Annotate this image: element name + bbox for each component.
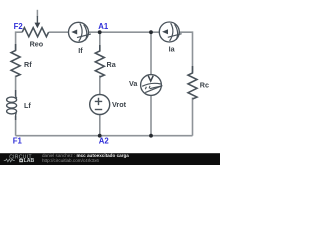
wire Rf to Lf [15,76,17,97]
svg-text:If: If [78,46,83,55]
wire Vrot to A2 [99,115,101,136]
wire Ia to right corner down to Rc [179,32,192,72]
svg-text:Vrot: Vrot [112,100,127,109]
wire Reo to If [49,31,69,33]
wire Rc to bottom-right corner [192,98,194,136]
svg-text:Rf: Rf [24,60,32,69]
inductor Lf [7,90,17,120]
resistor Rf [11,44,20,77]
svg-text:Ra: Ra [107,60,117,69]
wire top-left corner to Reo [16,32,23,50]
svg-text:http://circuitlab.com/c4rk3x6: http://circuitlab.com/c4rk3x6 [42,158,99,163]
ammeter Ia [159,22,181,42]
resistor Rc [188,66,197,99]
rheostat Reo [22,28,48,37]
svg-text:Ia: Ia [169,45,176,54]
wire If to Ia through A1 [89,31,160,33]
node junction bottom Va [149,134,153,138]
wire bottom F1 to A2 to corner [16,135,193,137]
svg-text:Reo: Reo [30,40,44,49]
svg-text:A1: A1 [98,22,109,31]
svg-text:LAB: LAB [24,158,35,164]
wire junction to Va [150,32,152,75]
voltage source Vrot [90,95,110,115]
node A2 [98,134,102,138]
resistor Ra [95,45,104,77]
wire A1 to Ra [99,32,101,51]
wire Va to bottom [150,95,152,136]
wire Lf to bottom-left corner [15,116,17,136]
voltmeter Va [141,75,163,96]
svg-text:Lf: Lf [24,101,31,110]
svg-text:A2: A2 [99,137,110,146]
rheostat Reo wiper arrow [36,10,38,17]
footer bar [0,153,220,165]
svg-text:F2: F2 [14,22,24,31]
svg-text:Va: Va [129,79,138,88]
node junction top Va [149,30,153,34]
node A1 [98,30,102,34]
svg-text:F1: F1 [13,137,23,146]
svg-text:Rc: Rc [200,81,209,90]
ammeter If [69,22,91,42]
wire Ra to Vrot [99,76,101,95]
